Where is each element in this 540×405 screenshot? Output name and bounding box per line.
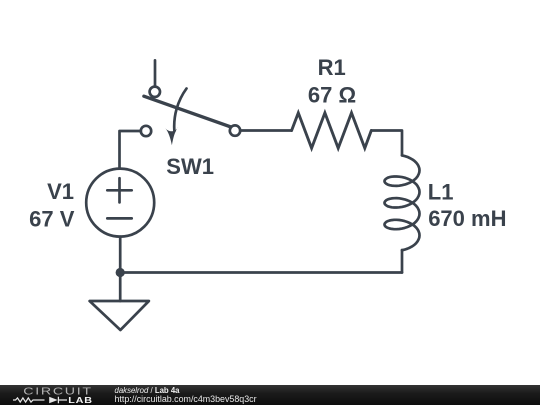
node junction dot bbox=[116, 268, 125, 277]
resistor R1 zigzag bbox=[292, 113, 372, 148]
V1 plus sign bbox=[118, 178, 121, 202]
switch SW1 arrowhead bbox=[165, 127, 178, 145]
switch SW1 top terminal bbox=[150, 87, 160, 97]
wire left terminal to V1 top bbox=[120, 131, 141, 168]
footer bar bbox=[0, 385, 540, 405]
svg-text:http://circuitlab.com/c4m3bev5: http://circuitlab.com/c4m3bev58q3cr bbox=[115, 394, 257, 404]
voltage source V1 circle bbox=[86, 169, 154, 237]
logo resistor squiggle bbox=[13, 398, 45, 402]
wire inductor top bbox=[371, 131, 402, 156]
switch SW1 left terminal bbox=[141, 126, 151, 136]
switch SW1 blade bbox=[144, 96, 233, 127]
wire junction to ground bbox=[119, 273, 122, 302]
ground symbol bbox=[90, 301, 149, 330]
inductor L1 coil bbox=[385, 155, 420, 250]
logo diode bbox=[49, 397, 58, 404]
wire inductor bottom bbox=[401, 250, 404, 273]
switch SW1 right terminal bbox=[230, 125, 240, 135]
switch SW1 actuation arrow arc bbox=[174, 89, 186, 132]
svg-text:LAB: LAB bbox=[68, 396, 93, 405]
wire V1 bottom to junction bbox=[119, 237, 122, 273]
wire bottom net bbox=[120, 271, 402, 274]
V1 minus sign bbox=[107, 217, 131, 220]
wire switch to resistor bbox=[240, 129, 291, 132]
wire switch top stub bbox=[154, 60, 157, 86]
